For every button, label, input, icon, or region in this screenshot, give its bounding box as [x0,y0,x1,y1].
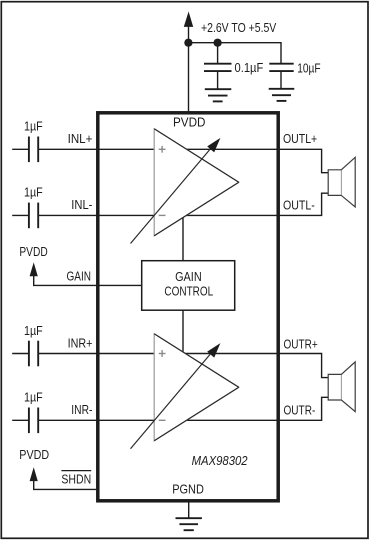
wire OUTL+ [280,149,328,172]
svg-text:+2.6V TO +5.5V: +2.6V TO +5.5V [201,20,277,35]
wire INR+ input stub [12,353,28,355]
op-amp U1A triangle [154,129,239,236]
svg-text:GAIN: GAIN [67,268,92,283]
junction dot A [184,39,192,47]
wire gain control to U1A [182,218,184,261]
plus sign U1B [159,350,166,357]
svg-text:PVDD: PVDD [173,114,206,129]
ground G2 [269,89,295,101]
wire PGND to ground [188,503,190,519]
wire INR- [39,419,280,421]
junction dot B [214,39,222,47]
op-amp U1B triangle [154,334,239,441]
wire INL- [39,214,280,216]
svg-text:1µF: 1µF [24,185,43,200]
wire OUTR+ [280,354,328,378]
wire supply horizontal [188,43,281,64]
power arrow PVDD to SHDN [30,467,38,481]
capacitor C5 1uF [29,341,38,367]
svg-text:PVDD: PVDD [19,244,47,259]
pin label SHDN with overline [61,471,91,487]
wire INR- input stub [12,419,28,421]
svg-text:INR+: INR+ [68,335,93,350]
minus sign U1A [159,214,166,216]
wire SHDN [34,474,96,489]
ground G1 [205,89,232,101]
minus sign U1B [159,419,166,421]
svg-text:SHDN: SHDN [61,472,91,487]
capacitor C6 1uF [29,408,38,434]
wire GAIN [34,270,142,285]
svg-text:INL-: INL- [71,197,92,212]
capacitor C3 1uF [29,137,38,163]
gain arrow U1B [131,343,221,449]
svg-text:10µF: 10µF [297,60,320,75]
svg-text:CONTROL: CONTROL [164,284,213,299]
speaker SPK2 [328,362,355,412]
svg-text:OUTR+: OUTR+ [284,336,318,351]
gain arrow U1A [131,138,221,244]
svg-text:1µF: 1µF [24,119,43,134]
wire INL+ input stub [12,148,28,150]
wire OUTL- [280,193,328,215]
svg-text:PGND: PGND [172,481,204,496]
capacitor C2 10uF [269,64,293,89]
capacitor C4 1uF [29,203,38,229]
plus sign U1A [159,146,166,153]
svg-text:1µF: 1µF [24,390,43,405]
svg-text:GAIN: GAIN [175,269,202,284]
wire OUTR- [280,397,328,420]
ground G3 [176,518,202,530]
capacitor C1 0.1uF [204,64,232,89]
speaker SPK1 [328,157,355,207]
wire to C1 [217,43,219,64]
wire VDD vertical [188,20,190,112]
wire INL+ [39,148,280,150]
IC U1 MAX98302 outline [98,113,278,501]
svg-text:PVDD: PVDD [19,447,49,462]
svg-text:INR-: INR- [71,402,92,417]
power arrow PVDD to GAIN [30,262,38,276]
svg-text:INL+: INL+ [68,131,93,146]
svg-text:MAX98302: MAX98302 [192,453,249,468]
wire INL- input stub [12,214,28,216]
svg-text:OUTL-: OUTL- [283,197,315,212]
gain control box [142,261,235,311]
wire gain control to U1B [182,310,184,352]
svg-text:OUTR-: OUTR- [284,403,316,418]
svg-text:0.1µF: 0.1µF [235,60,264,75]
svg-text:OUTL+: OUTL+ [283,131,317,146]
svg-text:1µF: 1µF [24,323,43,338]
label GAIN CONTROL [164,269,213,299]
wire INR+ [39,353,280,355]
power supply arrow [184,12,193,27]
